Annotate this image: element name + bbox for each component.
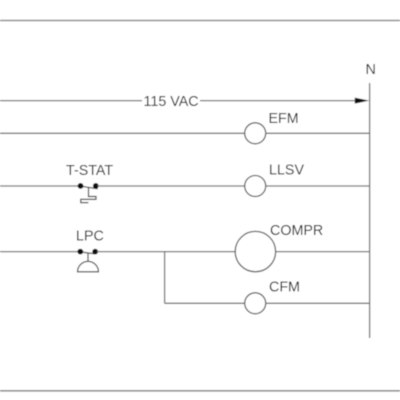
coil EFM	[245, 123, 266, 144]
arrowhead into rail	[355, 98, 369, 104]
wire: 115 VAC hot line left segment	[0, 100, 142, 102]
wire: T-STAT to LLSV	[98, 185, 245, 187]
wire: EFM rung right	[266, 132, 370, 134]
svg-text:EFM: EFM	[269, 111, 299, 127]
wire: LPC to COMPR	[97, 251, 235, 253]
wire: CFM rung right	[266, 302, 370, 304]
thermostat T-STAT contact	[81, 186, 98, 202]
svg-text:T-STAT: T-STAT	[66, 163, 113, 179]
top border line	[0, 20, 400, 22]
motor COMPR	[235, 231, 275, 271]
svg-text:CFM: CFM	[269, 279, 300, 295]
wire: neutral rail N	[369, 83, 371, 338]
terminal dots of LPC	[77, 249, 83, 255]
wire: EFM rung left	[0, 132, 245, 134]
pressure switch LPC	[77, 252, 99, 272]
wire: LLSV rung right	[266, 185, 370, 187]
svg-text:LPC: LPC	[76, 229, 104, 245]
wire: LPC rung left	[0, 251, 79, 253]
wire: T-STAT rung left	[0, 185, 79, 187]
wire: 115 VAC hot line right segment	[200, 100, 356, 102]
solenoid valve LLSV	[245, 176, 266, 197]
bottom border line	[0, 390, 400, 392]
svg-text:LLSV: LLSV	[269, 162, 304, 178]
wire: COMPR rung right	[276, 251, 370, 253]
terminal dots of T-STAT	[78, 183, 84, 189]
wire: CFM branch left	[165, 302, 245, 304]
svg-text:COMPR: COMPR	[270, 223, 323, 239]
wire: branch vertical drop	[164, 252, 166, 304]
svg-text:N: N	[366, 62, 376, 78]
svg-text:115 VAC: 115 VAC	[144, 94, 199, 110]
fan motor CFM	[245, 293, 266, 314]
